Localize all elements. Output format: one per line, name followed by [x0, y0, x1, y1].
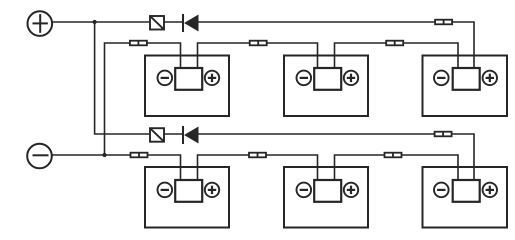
wire positive feed to lower string	[95, 22, 150, 134]
negative terminal	[27, 144, 52, 169]
battery B4 cell block	[158, 180, 220, 202]
fuse F8	[435, 132, 452, 137]
battery B3 outline	[423, 56, 508, 117]
fuse F4	[435, 20, 452, 25]
wire battery B4 to battery B5	[198, 155, 318, 180]
fuse F1	[130, 41, 147, 46]
battery B5 outline	[284, 167, 368, 228]
fuse F5	[131, 153, 148, 158]
fuse F7	[385, 153, 402, 158]
battery B6 outline	[423, 167, 508, 228]
wire negative bus to battery B1	[105, 43, 181, 155]
wire fuse F8 down to battery B6 positive	[452, 134, 475, 180]
diode D1	[183, 14, 199, 32]
breaker S1	[150, 16, 164, 30]
wire diode D2 to fuse F8	[199, 133, 435, 135]
battery B6 cell block	[434, 180, 497, 202]
battery B3 cell block	[434, 68, 497, 90]
battery B2 cell block	[297, 68, 359, 90]
wire breaker to diode D1	[164, 21, 182, 23]
fuse F2	[250, 41, 267, 46]
wire diode D1 to fuse F4	[199, 21, 436, 23]
fuse F6	[249, 153, 266, 158]
node positive junction	[93, 20, 97, 24]
node negative junction	[102, 153, 106, 157]
battery B2 outline	[284, 56, 368, 117]
wire fuse F4 down to battery B3 positive	[452, 22, 474, 68]
battery B1 outline	[145, 56, 229, 117]
wire breaker to diode D2	[164, 133, 182, 135]
wire battery B2 to battery B3	[335, 43, 459, 68]
diode D2	[183, 126, 199, 144]
wire positive terminal to breaker	[52, 21, 150, 23]
battery B1 cell block	[158, 68, 220, 90]
fuse F3	[386, 41, 403, 46]
wire battery B5 to battery B6	[335, 155, 459, 180]
wire battery B1 to battery B2	[198, 43, 318, 68]
breaker S2	[150, 128, 164, 142]
battery B5 cell block	[297, 180, 359, 202]
wire negative terminal bus	[52, 155, 181, 180]
battery B4 outline	[145, 167, 229, 228]
positive terminal	[28, 11, 53, 36]
